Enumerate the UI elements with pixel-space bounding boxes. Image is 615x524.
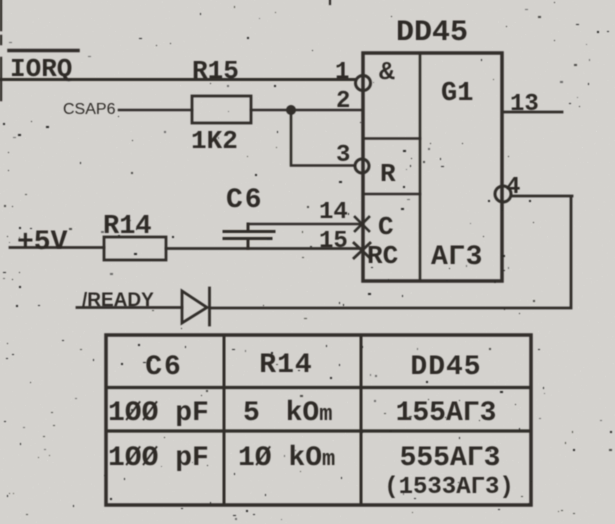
svg-text:R14: R14 — [103, 212, 152, 242]
wire CSAP6 to R15 — [119, 109, 192, 112]
wire R15 to pin 2 — [251, 109, 362, 112]
resistor R14 — [104, 237, 166, 260]
svg-text:&: & — [379, 57, 395, 87]
svg-text:4: 4 — [506, 174, 520, 201]
svg-text:R: R — [380, 159, 396, 189]
svg-text:(1533АГ3): (1533АГ3) — [384, 474, 514, 501]
IC DD45 box outline — [363, 53, 502, 281]
wire diode to pin 4 — [210, 197, 571, 308]
svg-text:13: 13 — [510, 91, 539, 118]
svg-text:RC: RC — [367, 241, 398, 271]
resistor R15 — [192, 96, 251, 123]
pin 3 inversion bubble — [355, 159, 369, 173]
svg-text:555АГ3: 555АГ3 — [400, 443, 501, 474]
pin 15 cross mark — [354, 243, 370, 258]
svg-text:1Ø kOm: 1Ø kOm — [238, 443, 335, 474]
wire R14 to pin 15 RC — [166, 247, 361, 250]
wire pin 4 stub — [511, 195, 572, 198]
IC DD45 section divider C — [363, 193, 420, 196]
wire pin 13 — [502, 111, 562, 114]
svg-text:R15: R15 — [192, 56, 239, 86]
IC DD45 section divider R — [363, 137, 420, 140]
pin 1 inversion bubble — [356, 76, 371, 91]
scan edge artifact left border — [0, 0, 2, 100]
svg-text:IORQ: IORQ — [10, 54, 72, 84]
svg-text:1: 1 — [335, 59, 349, 86]
svg-text:14: 14 — [319, 199, 348, 226]
svg-text:G1: G1 — [441, 79, 473, 109]
wire +5V to R14 — [10, 246, 104, 249]
svg-text:C6: C6 — [145, 352, 183, 383]
scan artifact top tick — [329, 0, 331, 4]
capacitor C6 — [224, 224, 274, 249]
svg-text:5 kOm: 5 kOm — [243, 398, 332, 429]
wire pin 14 C — [248, 223, 361, 226]
svg-text:2: 2 — [336, 88, 350, 115]
wire IORQ to pin 1 — [0, 78, 355, 81]
table frame — [106, 335, 531, 505]
svg-text:1ØØ pF: 1ØØ pF — [108, 398, 209, 429]
diode VD1 — [182, 288, 210, 325]
svg-text:1ØØ pF: 1ØØ pF — [108, 443, 209, 474]
svg-text:1K2: 1K2 — [191, 126, 238, 156]
pin 4 inversion bubble — [495, 186, 511, 202]
svg-text:C: C — [378, 212, 394, 242]
wire /READY to diode — [77, 306, 182, 309]
wire junction down to pin 3 — [291, 110, 354, 166]
junction node dot — [286, 105, 296, 115]
svg-text:3: 3 — [336, 142, 350, 169]
svg-text:DD45: DD45 — [410, 352, 481, 383]
svg-text:/READY: /READY — [82, 290, 154, 311]
svg-text:АГ3: АГ3 — [431, 242, 483, 273]
svg-text:DD45: DD45 — [396, 16, 468, 50]
svg-text:CSAP6: CSAP6 — [63, 101, 116, 118]
IC DD45 inner divider — [419, 53, 422, 281]
node IORQ overline — [9, 49, 78, 53]
svg-text:+5V: +5V — [17, 227, 68, 258]
svg-text:R14: R14 — [259, 350, 312, 381]
svg-text:155АГ3: 155АГ3 — [396, 398, 497, 429]
pin 14 cross mark — [355, 217, 369, 231]
svg-text:C6: C6 — [226, 185, 264, 216]
svg-text:15: 15 — [319, 228, 348, 255]
